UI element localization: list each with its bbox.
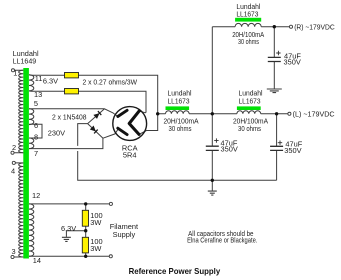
svg-text:LL1673: LL1673 [168, 96, 190, 105]
svg-text:LL1673: LL1673 [236, 9, 258, 18]
svg-text:1: 1 [13, 69, 17, 78]
svg-text:(L) ~179VDC: (L) ~179VDC [293, 110, 336, 119]
svg-text:2 x 0.27 ohms/3W: 2 x 0.27 ohms/3W [83, 78, 138, 87]
svg-text:2 x 1N5408: 2 x 1N5408 [52, 112, 87, 121]
svg-text:350V: 350V [284, 58, 301, 67]
svg-text:7: 7 [34, 149, 38, 158]
svg-text:30 ohms: 30 ohms [238, 37, 259, 46]
svg-text:11: 11 [35, 74, 43, 83]
svg-text:Reference Power Supply: Reference Power Supply [129, 266, 221, 276]
svg-text:3W: 3W [90, 244, 101, 253]
svg-text:6.3V: 6.3V [61, 224, 76, 233]
svg-text:LL1649: LL1649 [13, 56, 37, 65]
svg-text:Supply: Supply [113, 230, 136, 239]
svg-text:6: 6 [34, 121, 38, 130]
svg-text:12: 12 [32, 191, 40, 200]
svg-text:4: 4 [11, 166, 15, 175]
svg-text:LL1673: LL1673 [239, 96, 261, 105]
svg-text:Elna Cerafine or Blackgate.: Elna Cerafine or Blackgate. [187, 236, 257, 245]
svg-text:5R4: 5R4 [123, 151, 137, 160]
svg-text:5: 5 [34, 99, 38, 108]
svg-text:2: 2 [12, 143, 16, 152]
svg-text:14: 14 [33, 256, 41, 265]
svg-text:30 ohms: 30 ohms [238, 124, 261, 133]
svg-text:8: 8 [34, 132, 38, 141]
svg-text:13: 13 [34, 90, 42, 99]
svg-text:(R) ~179VDC: (R) ~179VDC [294, 23, 335, 32]
svg-text:3: 3 [12, 247, 16, 256]
svg-text:350V: 350V [221, 145, 238, 154]
svg-text:30 ohms: 30 ohms [169, 124, 192, 133]
svg-text:230V: 230V [48, 128, 65, 137]
svg-text:3W: 3W [90, 218, 101, 227]
svg-text:6.3V: 6.3V [43, 77, 58, 86]
svg-text:350V: 350V [284, 146, 301, 155]
